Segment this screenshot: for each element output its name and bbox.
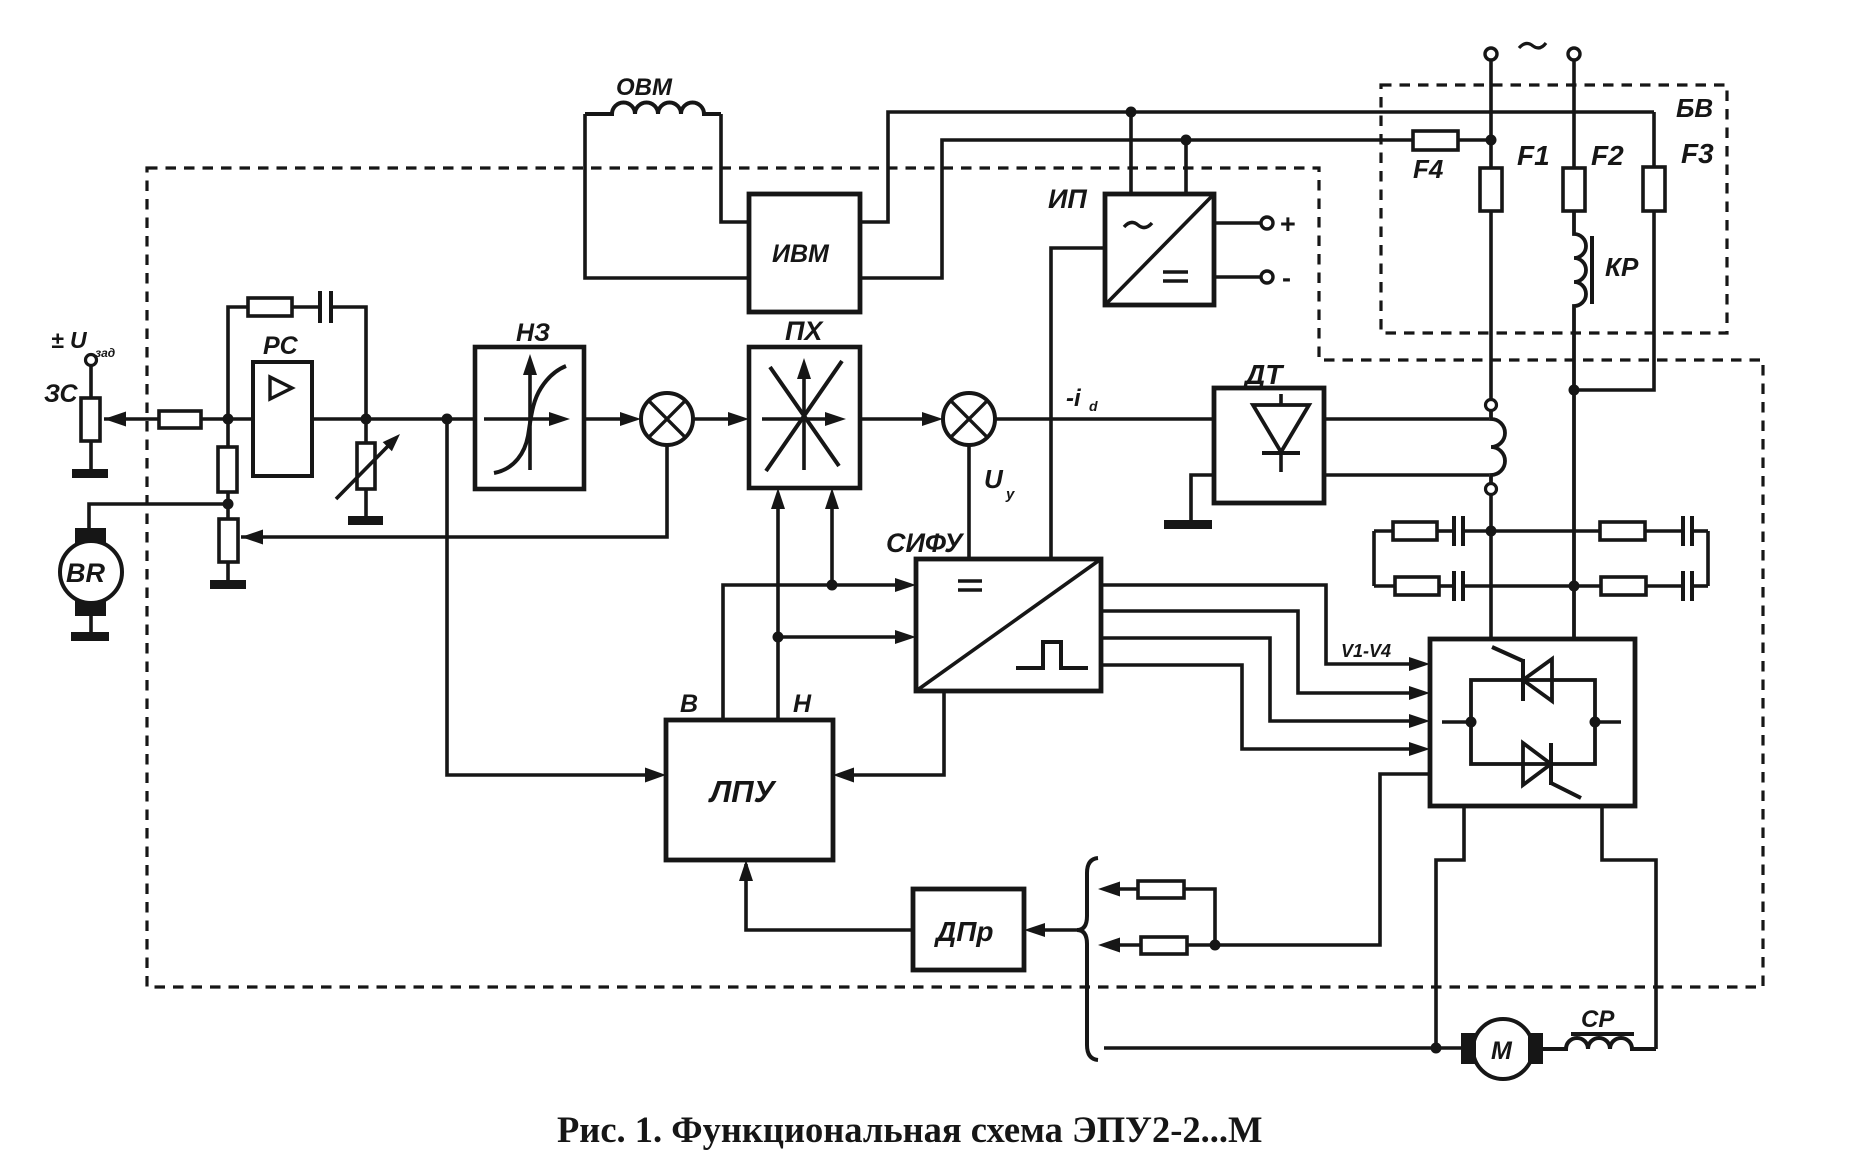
block ЛПУ box — [666, 720, 833, 860]
wire ДТ to CT upper — [1324, 417, 1489, 421]
wire brace to ДПр input — [1045, 928, 1081, 932]
label V1-V4 — [1341, 641, 1391, 661]
wire НЗ to multiplier 1 — [584, 417, 624, 421]
node motor armature — [1431, 1043, 1442, 1054]
ИП plus terminal — [1214, 221, 1261, 225]
wire ДТ to ground — [1191, 475, 1214, 521]
field winding ОВМ coil — [585, 103, 721, 114]
НЗ vertical axis — [528, 360, 532, 470]
label БВ — [1676, 93, 1713, 123]
ground under divider — [210, 580, 246, 589]
wire armature sense line — [1104, 1046, 1436, 1050]
БВ dashed enclosure — [1381, 85, 1727, 333]
label В — [680, 690, 698, 718]
resistor input R — [159, 411, 201, 428]
СИФУ output 3 — [1101, 638, 1409, 721]
node C — [361, 414, 372, 425]
ground under ЗС — [89, 441, 93, 470]
label ИП — [1048, 184, 1087, 214]
ДТ diode symbol — [1279, 394, 1283, 405]
svg-text:Рис. 1. Функциональная схема Э: Рис. 1. Функциональная схема ЭПУ2-2...М — [557, 1109, 1262, 1150]
node on В line — [827, 580, 838, 591]
wire ДПр to ЛПУ bottom input — [746, 864, 913, 930]
label ОВМ — [616, 74, 673, 101]
wire F4 to F1 line — [1458, 138, 1491, 142]
resistor divider upper — [226, 419, 230, 447]
node snubber top row F1 — [1486, 526, 1497, 537]
svg-text:+: + — [1280, 209, 1296, 239]
svg-text:НЗ: НЗ — [516, 319, 550, 347]
tachogenerator BR — [75, 528, 106, 543]
svg-text:ИП: ИП — [1048, 184, 1087, 214]
wire branch down to ЛПУ left input — [447, 419, 645, 775]
ground under trimmer — [364, 489, 368, 517]
relay coil КР — [1574, 211, 1586, 639]
svg-text:КР: КР — [1605, 252, 1639, 282]
НЗ horizontal axis — [484, 417, 556, 421]
wire ИВМ to phase bus 2 — [860, 140, 1413, 278]
wiper arrow into divider from multiplier 1 — [241, 445, 667, 537]
block ПХ box — [749, 347, 860, 488]
block ДПр box — [913, 889, 1024, 970]
wire riser ПХ input 2 — [830, 497, 834, 585]
node tach feedback — [1210, 940, 1221, 951]
wire ИП tap 1 — [1129, 112, 1133, 194]
node D branch to ЛПУ — [442, 414, 453, 425]
ИП ac symbol — [1124, 222, 1152, 227]
bridge inner loop — [1471, 680, 1595, 764]
wire Н node to СИФУ input 2 — [778, 635, 899, 639]
wire node B to tachogenerator BR — [89, 504, 228, 529]
СИФУ output 4 — [1101, 665, 1409, 749]
snubber resistor top right — [1600, 522, 1645, 540]
thyristor V lower — [1549, 743, 1553, 785]
wire ИП tap 2 — [1184, 140, 1188, 194]
node F2-F3 join — [1569, 385, 1580, 396]
potentiometer ЗС — [81, 398, 100, 441]
block ИВМ box — [749, 194, 860, 312]
block НЗ box — [475, 347, 584, 489]
svg-text:ПХ: ПХ — [785, 316, 824, 346]
fuse F4 — [1413, 131, 1458, 150]
wire Uy riser multiplier 2 to СИФУ — [967, 445, 971, 559]
feedback capacitor — [292, 305, 318, 309]
svg-text:ЛПУ: ЛПУ — [708, 774, 777, 809]
bridge right stub — [1595, 720, 1621, 724]
supply terminal 2 — [1568, 48, 1580, 60]
op-amp РС box — [253, 362, 312, 476]
label НЗ — [516, 319, 550, 347]
current transformer terminal upper — [1486, 400, 1497, 411]
wiper arrow into ЗС — [104, 417, 159, 421]
svg-text:F4: F4 — [1413, 154, 1444, 184]
svg-text:зад: зад — [95, 346, 115, 360]
node F4-F1 — [1486, 135, 1497, 146]
label РС — [263, 332, 299, 360]
ПХ vertical axis — [802, 364, 806, 470]
svg-text:-: - — [1282, 263, 1291, 293]
node B — [223, 499, 234, 510]
label ДТ — [1243, 359, 1285, 390]
wire В line to СИФУ input 1 — [723, 585, 899, 720]
wire Н riser ЛПУ to ПХ input 1 — [776, 497, 780, 720]
wire terminal to ЗС pot — [89, 366, 93, 398]
label Н — [793, 690, 812, 718]
node A — [223, 414, 234, 425]
ПХ characteristic diagonals — [766, 361, 842, 471]
ground under BR — [89, 616, 93, 633]
wire ПХ to multiplier 2 — [860, 417, 926, 421]
СИФУ dc symbol = — [958, 581, 982, 590]
snubber resistor top left — [1374, 529, 1393, 533]
resistor tach feedback lower — [1119, 943, 1141, 947]
multiplier 2 — [943, 393, 995, 445]
wire feedback to thyristor block — [1215, 774, 1430, 945]
СИФУ output 2 — [1101, 611, 1409, 693]
wire phase F3 vertical — [1652, 112, 1656, 167]
fuse F3 — [1643, 167, 1665, 211]
snubber capacitor bottom left — [1439, 584, 1452, 588]
wire multiplier 1 to ПХ — [693, 417, 732, 421]
ИП minus terminal — [1214, 275, 1261, 279]
wire ОВМ left leg — [585, 114, 749, 278]
svg-text:ДТ: ДТ — [1243, 359, 1285, 390]
svg-text:БВ: БВ — [1676, 93, 1713, 123]
svg-text:ИВМ: ИВМ — [772, 240, 830, 268]
label СИФУ — [886, 528, 964, 558]
thyristor V upper — [1521, 659, 1525, 701]
wire bridge dc output right — [1602, 806, 1656, 1049]
feedback resistor — [228, 307, 248, 419]
snubber resistor bottom right — [1601, 577, 1646, 595]
label ~ supply — [1519, 43, 1546, 48]
svg-text:± U: ± U — [51, 327, 88, 353]
svg-text:BR: BR — [66, 558, 105, 588]
wire F1 line to snubber node — [1489, 211, 1493, 639]
trimmer resistor (variable) — [364, 419, 368, 443]
outer dashed enclosure — [147, 168, 1763, 987]
fuse F1 — [1480, 168, 1502, 211]
block ДТ box — [1214, 388, 1324, 503]
svg-text:В: В — [680, 690, 698, 718]
svg-text:РС: РС — [263, 332, 299, 360]
potentiometer feedback divider — [219, 519, 238, 562]
supply terminal 1 — [1485, 48, 1497, 60]
svg-text:у: у — [1005, 486, 1015, 503]
block ИП box — [1105, 194, 1214, 305]
ground under ДТ — [1164, 520, 1212, 529]
snubber capacitor top right — [1645, 529, 1681, 533]
svg-text:V1-V4: V1-V4 — [1341, 641, 1391, 661]
wire op-amp output — [312, 417, 475, 421]
op-amp triangle — [270, 377, 292, 399]
svg-text:Н: Н — [793, 690, 812, 718]
svg-text:СИФУ: СИФУ — [886, 528, 964, 558]
multiplier 1 — [641, 393, 693, 445]
wire ИВМ to phase bus 1 — [860, 112, 1654, 222]
current transformer winding — [1491, 410, 1505, 483]
СИФУ diagonal — [916, 559, 1101, 691]
svg-text:М: М — [1491, 1037, 1513, 1065]
СИФУ output 1 to thyristor gate — [1101, 585, 1409, 664]
svg-text:F1: F1 — [1517, 140, 1550, 171]
svg-text:ЗС: ЗС — [44, 380, 78, 408]
wire resistor to op-amp — [201, 417, 255, 421]
НЗ saturation curve — [494, 366, 566, 473]
smoothing reactor СР — [1543, 1038, 1656, 1049]
svg-text:d: d — [1089, 398, 1098, 414]
snubber resistor bottom left — [1374, 584, 1395, 588]
node Uzad terminal — [86, 355, 97, 366]
svg-text:F3: F3 — [1681, 138, 1714, 169]
node on Н riser — [773, 632, 784, 643]
svg-text:СР: СР — [1581, 1006, 1615, 1033]
snubber right connector — [1706, 531, 1710, 586]
label ЛПУ — [708, 774, 777, 809]
wire ИП sync riser to СИФУ — [1051, 248, 1105, 559]
node snubber bottom row F2 — [1569, 581, 1580, 592]
label -id — [1066, 385, 1098, 414]
wire ОВМ right leg — [721, 114, 749, 222]
wire bridge dc output left — [1436, 806, 1464, 1048]
label ЗС — [44, 380, 78, 408]
snubber left connector — [1372, 531, 1376, 586]
label Uy — [984, 464, 1015, 503]
wire ДТ to CT lower — [1324, 473, 1489, 477]
block СИФУ box — [916, 559, 1101, 691]
label ±Uзад — [51, 327, 115, 360]
wire F3 lower — [1574, 211, 1654, 390]
fuse F2 — [1563, 168, 1585, 211]
ИП dc symbol — [1163, 272, 1188, 281]
svg-text:U: U — [984, 464, 1004, 494]
motor M — [1436, 1046, 1464, 1050]
label ПХ — [785, 316, 824, 346]
brace — [1077, 858, 1098, 1060]
caption — [557, 1109, 1262, 1150]
svg-text:ДПр: ДПр — [934, 916, 993, 947]
wire phase F2 upper — [1572, 60, 1576, 168]
resistor tach feedback upper — [1119, 887, 1138, 891]
thyristor bridge box V1-V4 — [1430, 639, 1635, 806]
wire phase F1 upper — [1489, 60, 1493, 168]
svg-text:-i: -i — [1066, 385, 1082, 412]
label ДПр — [934, 916, 993, 947]
wire СИФУ bottom to ЛПУ right input — [854, 691, 944, 775]
ПХ horizontal axis — [762, 417, 832, 421]
snubber capacitor top left — [1437, 529, 1452, 533]
СИФУ pulse symbol — [1016, 642, 1088, 668]
wire multiplier 2 to ДТ (-id) — [995, 417, 1214, 421]
svg-text:F2: F2 — [1591, 140, 1624, 171]
current transformer terminal lower — [1486, 484, 1497, 495]
snubber capacitor bottom right — [1646, 584, 1681, 588]
bridge left stub — [1442, 720, 1471, 724]
svg-text:ОВМ: ОВМ — [616, 74, 673, 101]
label ИВМ — [772, 240, 830, 268]
